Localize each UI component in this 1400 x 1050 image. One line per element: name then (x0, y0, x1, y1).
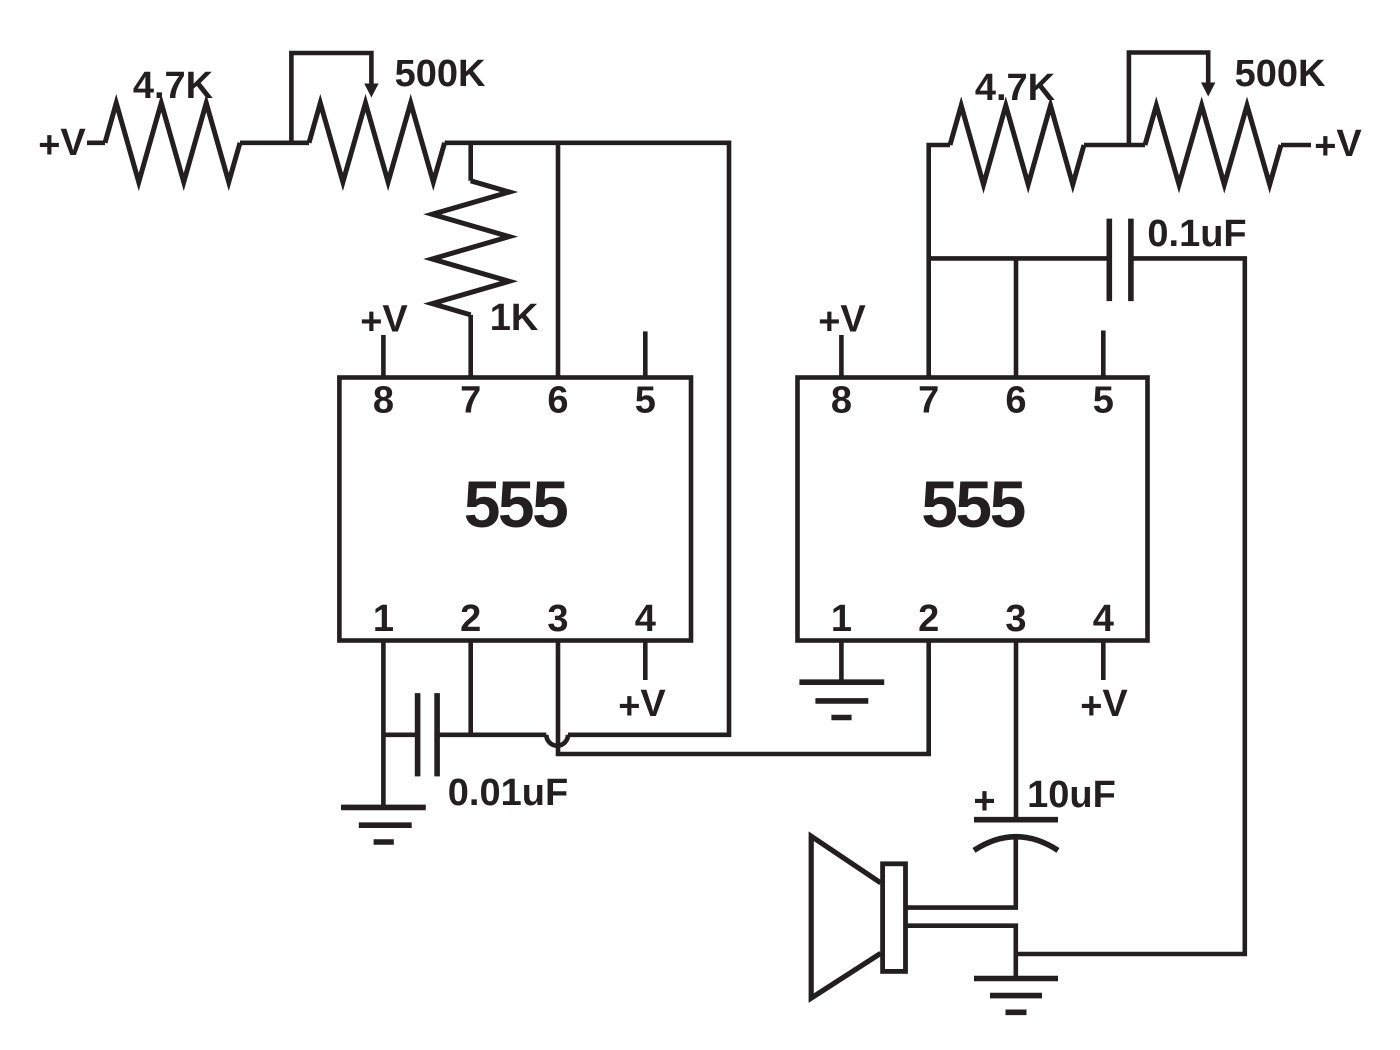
svg-text:7: 7 (918, 380, 939, 422)
wire pin 6 chip2 up to cap node (1014, 258, 1019, 377)
svg-text:1: 1 (373, 598, 394, 640)
svg-text:+V: +V (38, 122, 86, 167)
svg-text:2: 2 (918, 598, 939, 640)
wire pin 1 chip2 to ground (839, 641, 844, 683)
svg-text:1: 1 (831, 598, 852, 640)
svg-text:6: 6 (547, 380, 568, 422)
wire pin 6 chip1 up to top node (556, 143, 561, 378)
svg-text:+V: +V (618, 683, 666, 728)
resistor 4.7K left (105, 103, 240, 182)
resistor 1K bottom lead to pin 7 (468, 315, 473, 378)
wire pin1 line to capacitor 0.01uF (383, 732, 417, 737)
svg-text:555: 555 (464, 467, 567, 541)
wire left column right osc: 4.7K lead down to pin 7 chip2 (929, 145, 950, 378)
wire +V to R 4.7K left (87, 141, 105, 146)
wire 4.7K right to pot (1084, 143, 1145, 148)
ground chip1 pin1 (341, 807, 426, 842)
wire pin 4 chip2 stub (1101, 641, 1106, 681)
wire pot right to +V (1281, 143, 1311, 148)
potentiometer 500K right element (1145, 106, 1281, 185)
op-amp U1 555 timer chip1 body (339, 378, 691, 641)
wire 10uF to speaker upper terminal (906, 839, 1016, 908)
svg-text:5: 5 (635, 380, 656, 422)
svg-text:4.7K: 4.7K (975, 67, 1056, 109)
wire node pins 6,7 chip2 to capacitor 0.1uF (929, 256, 1110, 261)
wire capacitor 0.1uF right side down to speaker return (1016, 258, 1245, 954)
svg-text:555: 555 (921, 467, 1024, 541)
pot 500K right wiper bracket and arrow (1129, 53, 1208, 146)
svg-text:6: 6 (1005, 380, 1026, 422)
wire hop over pin3 line (546, 735, 568, 746)
svg-text:500K: 500K (395, 53, 486, 95)
resistor 4.7K right (950, 106, 1084, 185)
wire pin 2 chip1 down to trigger node (468, 641, 473, 735)
svg-text:4: 4 (1093, 598, 1114, 640)
ground chip2 pin1 (799, 682, 884, 717)
pot 500K left wiper bracket and arrow (291, 53, 371, 143)
potentiometer 500K left element (309, 103, 445, 182)
speaker SP1 cone (811, 836, 881, 998)
svg-text:+V: +V (1314, 123, 1362, 168)
capacitor C3 10uF polarized (974, 820, 1058, 851)
svg-text:3: 3 (547, 598, 568, 640)
svg-text:+V: +V (1080, 683, 1128, 728)
svg-text:2: 2 (460, 598, 481, 640)
op-amp U2 555 timer chip2 body (798, 378, 1148, 641)
wire +V stub to pin 8 chip1 (381, 335, 386, 378)
capacitor C2 0.1uF plates (1109, 219, 1131, 302)
resistor 1K top lead (468, 143, 473, 181)
wire pin 4 chip1 stub (643, 641, 648, 681)
svg-text:4.7K: 4.7K (133, 65, 214, 107)
wire pin 1 chip1 to ground (381, 641, 386, 808)
wire +V stub to pin 8 chip2 (839, 335, 844, 378)
svg-text:8: 8 (831, 380, 852, 422)
ground speaker (974, 979, 1058, 1013)
capacitor C1 0.01uF plates (418, 693, 438, 776)
wire stub pin 5 chip2 (1101, 331, 1106, 378)
svg-text:0.01uF: 0.01uF (448, 772, 568, 814)
svg-text:8: 8 (373, 380, 394, 422)
svg-text:+: + (973, 781, 995, 823)
svg-text:500K: 500K (1235, 53, 1326, 95)
svg-text:10uF: 10uF (1027, 774, 1116, 816)
svg-text:4: 4 (635, 598, 656, 640)
svg-text:3: 3 (1005, 598, 1026, 640)
wire pin 3 chip1 output down and right to pin 2 chip2 (558, 641, 929, 755)
wire pin 3 chip2 down to 10uF (1014, 641, 1019, 820)
wire capacitor to pin2 node and to hop (437, 732, 546, 737)
wire 4.7K to pot 500K left (240, 141, 309, 146)
svg-text:7: 7 (460, 380, 481, 422)
wire stub pin 5 chip1 (643, 331, 648, 377)
svg-text:1K: 1K (490, 297, 539, 339)
svg-text:5: 5 (1093, 380, 1114, 422)
wire pot left to node column (pins 6,7) and down right side to trigger line (445, 143, 729, 735)
wire speaker lower terminal to ground (906, 926, 1016, 979)
resistor 1K (432, 181, 509, 315)
speaker SP1 driver body (883, 864, 906, 972)
svg-text:0.1uF: 0.1uF (1147, 213, 1246, 255)
